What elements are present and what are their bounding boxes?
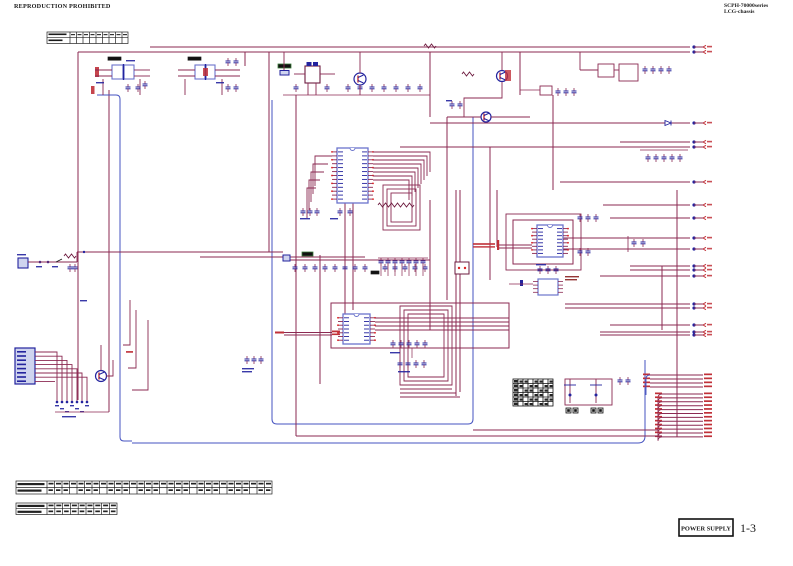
capacitor bbox=[564, 88, 569, 96]
svg-text:POWER SUPPLY: POWER SUPPLY bbox=[681, 526, 731, 533]
wire red bundle to U902 bbox=[473, 240, 532, 250]
capacitor bbox=[667, 66, 672, 74]
capacitor bbox=[226, 58, 231, 66]
capacitor bbox=[259, 356, 264, 364]
wire bbox=[614, 69, 619, 71]
wire vertical x296 bbox=[295, 95, 297, 436]
capacitor bbox=[407, 340, 412, 348]
wire mid bus C bbox=[283, 259, 430, 261]
wire bbox=[178, 69, 195, 71]
transistor Q903 bbox=[481, 112, 491, 122]
wire bbox=[401, 266, 403, 276]
svg-text:LCG-chassis: LCG-chassis bbox=[724, 9, 755, 15]
wire q905 top bbox=[100, 345, 102, 370]
wire bbox=[307, 83, 309, 95]
shield box chip B area bbox=[513, 220, 573, 264]
wire vertical x520 bbox=[519, 52, 521, 95]
wire to terminal T14 bbox=[565, 303, 690, 305]
wire bbox=[380, 266, 382, 276]
capacitor bbox=[538, 266, 543, 274]
capacitor bbox=[303, 264, 308, 272]
wire to terminal T11 bbox=[630, 265, 690, 267]
wire bbox=[139, 79, 141, 95]
wire bus chipA right bbox=[373, 152, 430, 200]
capacitor bbox=[393, 258, 398, 266]
capacitor bbox=[343, 264, 348, 272]
transistor Q902 bbox=[497, 71, 508, 82]
wire vertical x677 bbox=[676, 190, 678, 437]
wire bbox=[320, 73, 335, 75]
pin matrix fills bbox=[514, 380, 553, 405]
capacitor bbox=[348, 208, 353, 216]
wire vertical x109 bbox=[108, 90, 110, 412]
capacitor bbox=[126, 84, 131, 92]
wire to terminal T17 bbox=[600, 331, 690, 333]
wire chipC out right bbox=[375, 318, 509, 330]
wire AC line bbox=[18, 261, 77, 263]
capacitor bbox=[252, 356, 257, 364]
diode block D901 bbox=[580, 52, 672, 81]
wire red bundle to U904 bbox=[275, 331, 340, 336]
capacitor bbox=[391, 340, 396, 348]
wire to terminal T7 bbox=[603, 204, 690, 206]
wire to terminal T5 bbox=[400, 146, 690, 148]
capacitor bbox=[662, 154, 667, 162]
resistor R bbox=[402, 203, 414, 207]
capacitor bbox=[323, 264, 328, 272]
capacitor bbox=[370, 84, 375, 92]
wire vertical x296 low bbox=[295, 348, 297, 436]
capacitor bbox=[73, 264, 78, 272]
regulator cluster bbox=[520, 86, 577, 96]
wire to terminal T3 bbox=[430, 122, 690, 124]
capacitor bbox=[458, 101, 463, 109]
wire to terminal T12 bbox=[630, 269, 690, 271]
capacitor bbox=[421, 258, 426, 266]
capacitor bbox=[143, 81, 148, 89]
wire riser group bbox=[123, 300, 148, 390]
component row mid bus bbox=[293, 264, 428, 274]
transformer T903 bbox=[294, 62, 335, 95]
wire bbox=[134, 75, 150, 77]
capacitor pair lower right bbox=[618, 377, 631, 385]
wire vertical x245 bbox=[244, 52, 246, 66]
FET gate boxes bbox=[566, 408, 603, 413]
wire vertical x345 bbox=[344, 203, 346, 314]
capacitor bbox=[68, 264, 73, 272]
wire bbox=[283, 52, 285, 70]
capacitor bbox=[301, 208, 306, 216]
capacitor bbox=[294, 84, 299, 92]
diode D902 bbox=[665, 121, 671, 126]
fuse F901 bbox=[280, 71, 289, 76]
transformer T901 cluster bbox=[91, 57, 150, 95]
capacitor bbox=[308, 208, 313, 216]
wire bbox=[580, 69, 598, 71]
capacitor bbox=[358, 84, 363, 92]
capacitor bbox=[313, 264, 318, 272]
capacitor bbox=[643, 66, 648, 74]
junction dots CN902 bbox=[56, 401, 59, 404]
capacitor bbox=[346, 84, 351, 92]
connector CN902 bbox=[15, 348, 55, 384]
node VOUT1 bbox=[692, 45, 712, 48]
wire bbox=[315, 83, 317, 95]
parts table 2 bbox=[16, 503, 117, 515]
capacitor bbox=[418, 84, 423, 92]
node T4 bbox=[692, 140, 712, 143]
capacitor bbox=[414, 258, 419, 266]
wire vertical x460 bbox=[459, 190, 461, 392]
wire fan-out CN902 bbox=[55, 352, 87, 401]
node T11 bbox=[692, 264, 712, 267]
wire mid bus A bbox=[77, 251, 283, 253]
capacitor bbox=[618, 377, 623, 385]
capacitor bbox=[393, 264, 398, 272]
FET pair Q906 Q907 bbox=[564, 379, 612, 405]
title block POWER SUPPLY bbox=[679, 519, 733, 536]
IC U903 bbox=[520, 279, 563, 295]
wire bbox=[378, 257, 428, 259]
capacitor bank C9xx bbox=[640, 150, 688, 162]
capacitor bbox=[406, 360, 411, 368]
wire to terminal T15 bbox=[565, 307, 690, 309]
wire bbox=[76, 252, 78, 262]
wire vertical x456 bbox=[455, 190, 457, 396]
transistor Q901 bbox=[354, 73, 366, 85]
transformer T902 cluster bbox=[178, 57, 240, 95]
capacitor bbox=[136, 84, 141, 92]
resistor R input bbox=[64, 254, 76, 258]
capacitor bbox=[386, 258, 391, 266]
node T16 bbox=[692, 323, 712, 326]
label PS901 bbox=[302, 252, 313, 256]
node T17 bbox=[692, 330, 712, 333]
resistor R bbox=[378, 203, 390, 207]
AC inlet connector CN901 bbox=[17, 254, 78, 272]
wire blue bottom bus bbox=[132, 360, 645, 443]
resistor pack under U902 bbox=[536, 264, 559, 274]
node T5 bbox=[692, 145, 712, 148]
capacitor bbox=[586, 248, 591, 256]
node T12 bbox=[692, 268, 712, 271]
capacitor bbox=[234, 58, 239, 66]
relay RY901 bbox=[283, 255, 290, 261]
capacitor bbox=[646, 154, 651, 162]
wire vertical x447 bbox=[446, 117, 448, 300]
wire to terminal T6 bbox=[560, 181, 690, 183]
wire bbox=[102, 79, 104, 95]
node T15 bbox=[692, 306, 712, 309]
capacitor bbox=[400, 258, 405, 266]
capacitor bbox=[413, 264, 418, 272]
capacitor bbox=[226, 84, 231, 92]
capacitor bbox=[641, 239, 646, 247]
node T14 bbox=[692, 302, 712, 305]
wire bbox=[294, 73, 305, 75]
wire staircase bbox=[400, 388, 452, 390]
wire to terminal T16 bbox=[610, 324, 690, 326]
node T13 bbox=[692, 274, 712, 277]
capacitor pair mid right bbox=[628, 236, 646, 252]
capacitor bbox=[293, 264, 298, 272]
wire top bus 1 bbox=[150, 46, 690, 48]
wire vertical x497 bbox=[496, 190, 498, 247]
wire mid bus B bbox=[200, 256, 365, 258]
wire bbox=[215, 69, 240, 71]
resistor R911 bbox=[462, 72, 474, 76]
wire to terminal T13 bbox=[600, 275, 690, 277]
capacitor bbox=[546, 266, 551, 274]
capacitor bbox=[315, 208, 320, 216]
node T6 bbox=[692, 180, 712, 183]
shield box chip C area bbox=[331, 303, 509, 348]
capacitor bbox=[403, 264, 408, 272]
capacitor group under U904 bbox=[390, 340, 428, 372]
wire bbox=[95, 69, 112, 71]
svg-text:REPRODUCTION PROHIBITED: REPRODUCTION PROHIBITED bbox=[14, 3, 111, 10]
op-amp/IC U901 PWM controller bbox=[331, 148, 374, 203]
capacitor bbox=[414, 360, 419, 368]
output harness group1 bbox=[643, 374, 712, 396]
wire to terminal T8 bbox=[610, 217, 690, 219]
output harness group2 bbox=[655, 393, 712, 441]
wire vertical x320 bbox=[319, 255, 321, 384]
capacitor bbox=[578, 248, 583, 256]
wire bbox=[387, 266, 389, 276]
resistor R bbox=[390, 203, 402, 207]
wire vertical x490 bbox=[489, 147, 491, 280]
capacitor bbox=[654, 154, 659, 162]
wire vertical x353 bbox=[352, 203, 354, 310]
wire bbox=[215, 75, 240, 77]
wire bbox=[408, 266, 410, 276]
wire vertical x269 bbox=[268, 52, 270, 252]
capacitor bbox=[586, 214, 591, 222]
wire to terminal T10 bbox=[560, 248, 690, 250]
capacitor bbox=[379, 258, 384, 266]
wire bbox=[422, 266, 424, 276]
wire bus chipA left bbox=[307, 156, 332, 218]
node T9 bbox=[692, 236, 712, 239]
wire bbox=[411, 348, 413, 358]
wire vertical x662 bbox=[661, 266, 663, 330]
resistor R910 bbox=[424, 44, 436, 48]
capacitor bbox=[578, 214, 583, 222]
fuse F901 label bbox=[278, 64, 291, 68]
capacitor bbox=[450, 101, 455, 109]
capacitor bbox=[626, 377, 631, 385]
node T18 bbox=[692, 333, 712, 336]
capacitor bbox=[382, 84, 387, 92]
wire bbox=[415, 266, 417, 276]
wire to terminal T18 bbox=[600, 334, 690, 336]
wire to terminal T4 bbox=[620, 141, 690, 143]
label T901 bbox=[108, 57, 121, 60]
wire vertical x553 bbox=[552, 95, 554, 190]
shield box nest 1 bbox=[383, 185, 420, 230]
capacitor bbox=[383, 264, 388, 272]
capacitor bbox=[556, 88, 561, 96]
op-amp/IC U902 regulator bbox=[531, 225, 569, 257]
capacitor bbox=[363, 264, 368, 272]
wire bbox=[394, 266, 396, 276]
wire bbox=[359, 52, 361, 73]
label IC902 bbox=[371, 271, 379, 274]
wire blue route left bbox=[97, 95, 132, 441]
wire bbox=[640, 149, 688, 151]
svg-text:1-3: 1-3 bbox=[740, 521, 756, 535]
wire bbox=[221, 79, 223, 95]
wire row y95 bbox=[283, 94, 430, 96]
wire bus y436 bbox=[296, 435, 662, 437]
capacitor row x380 bbox=[378, 258, 428, 276]
shield box nest 2 bbox=[400, 306, 452, 385]
capacitor bbox=[423, 340, 428, 348]
wire bbox=[178, 75, 195, 77]
capacitor bbox=[572, 88, 577, 96]
wire left vertical x78 bbox=[77, 52, 79, 400]
wire bbox=[359, 85, 361, 95]
pin matrix table bbox=[513, 379, 553, 406]
capacitor bbox=[415, 340, 420, 348]
capacitor bbox=[422, 360, 427, 368]
capacitor bbox=[333, 264, 338, 272]
capacitor bbox=[245, 356, 250, 364]
capacitor bbox=[678, 154, 683, 162]
capacitor bbox=[554, 266, 559, 274]
wire blue mid frame bbox=[272, 100, 473, 424]
node VOUT2 bbox=[692, 50, 712, 53]
capacitor bbox=[406, 84, 411, 92]
wire bbox=[95, 75, 112, 77]
net labels CN902 bbox=[55, 405, 59, 406]
capacitor bbox=[659, 66, 664, 74]
wire u903 in bbox=[509, 283, 533, 285]
capacitor bbox=[651, 66, 656, 74]
capacitor bbox=[394, 84, 399, 92]
wire q903 out bbox=[491, 116, 530, 118]
capacitor bbox=[338, 208, 343, 216]
capacitor bbox=[632, 239, 637, 247]
capacitor bbox=[353, 264, 358, 272]
wire bus y430 bbox=[473, 429, 658, 431]
wire box CN902 bbox=[55, 411, 109, 413]
capacitor bbox=[594, 214, 599, 222]
node T7 bbox=[692, 203, 712, 206]
wire to terminal T9 bbox=[560, 237, 690, 239]
capacitor bbox=[399, 340, 404, 348]
wire bbox=[134, 69, 150, 71]
node T3 bbox=[692, 121, 712, 124]
parts table 1 bbox=[16, 481, 272, 494]
transistor Q905 bbox=[96, 371, 107, 382]
wire vertical x430b bbox=[429, 200, 431, 330]
capacitor bbox=[234, 84, 239, 92]
capacitor bbox=[398, 360, 403, 368]
capacitor bbox=[423, 264, 428, 272]
wire top bus 2 bbox=[78, 51, 690, 53]
wire bbox=[184, 79, 186, 95]
photocoupler PC901 bbox=[455, 262, 469, 274]
node T10 bbox=[692, 247, 712, 250]
node T8 bbox=[692, 216, 712, 219]
shield box chip B outer bbox=[506, 214, 581, 270]
label T902 bbox=[188, 57, 201, 60]
wire vertical x430 bbox=[429, 52, 431, 117]
wire bbox=[520, 89, 540, 91]
wire bbox=[501, 52, 503, 70]
revision table top-left bbox=[47, 32, 128, 44]
capacitor bbox=[407, 258, 412, 266]
wire bbox=[579, 52, 581, 70]
capacitor bbox=[325, 84, 330, 92]
op-amp/IC U904 standby supply bbox=[337, 314, 376, 344]
capacitor bbox=[670, 154, 675, 162]
